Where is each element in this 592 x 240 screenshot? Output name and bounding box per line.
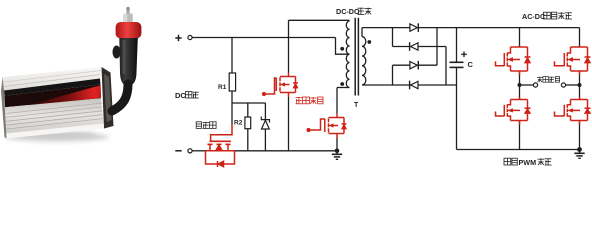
svg-text:AC-DC: AC-DC [522, 12, 545, 21]
svg-text:DC: DC [175, 91, 186, 100]
svg-text:DC-DC: DC-DC [336, 7, 359, 16]
svg-text:R2: R2 [234, 120, 243, 127]
svg-text:C: C [468, 60, 474, 69]
svg-text:PWM: PWM [519, 158, 537, 167]
svg-text:R1: R1 [218, 84, 227, 91]
svg-text:T: T [354, 102, 359, 109]
